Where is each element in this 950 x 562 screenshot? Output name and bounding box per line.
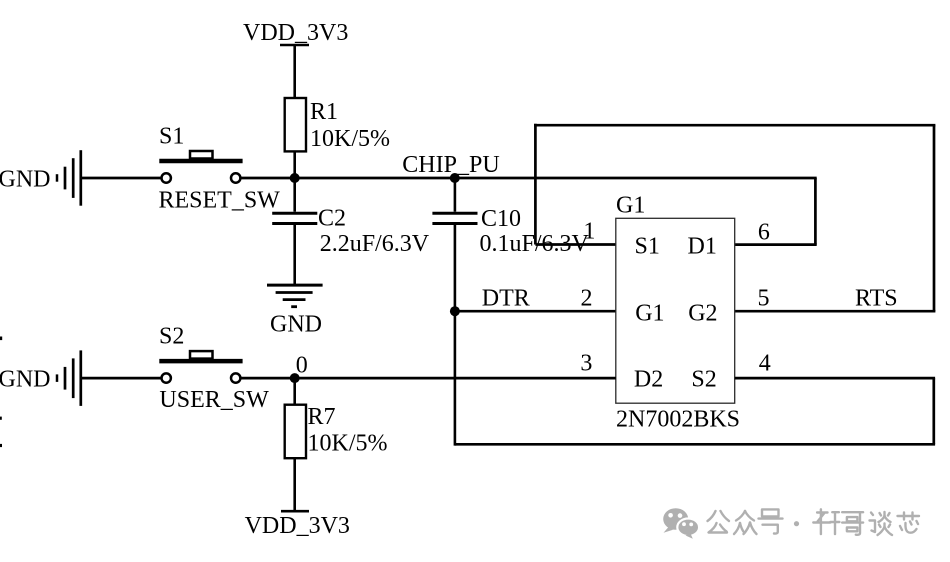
wire pin 4 loop (S2 net bottom) xyxy=(455,311,935,445)
svg-text:GND: GND xyxy=(270,312,322,338)
svg-text:VDD_3V3: VDD_3V3 xyxy=(245,513,350,539)
wire C10 to DTR junction xyxy=(454,225,457,311)
svg-text:RTS: RTS xyxy=(855,286,898,312)
wire R1 to junction xyxy=(293,151,296,178)
capacitor C2 xyxy=(272,178,430,257)
svg-text:2: 2 xyxy=(581,286,593,312)
svg-text:GND: GND xyxy=(0,166,51,192)
号 xyxy=(759,509,783,533)
svg-text:C2: C2 xyxy=(318,206,346,232)
watermark wechat icon xyxy=(663,508,699,539)
junction (R1/S1/C2) xyxy=(290,173,300,183)
svg-text:S2: S2 xyxy=(691,367,716,393)
ground GND (user row, left) xyxy=(0,350,81,406)
switch S2 (USER_SW) xyxy=(159,324,269,414)
svg-text:S1: S1 xyxy=(159,124,184,150)
svg-text:1: 1 xyxy=(583,219,595,245)
· xyxy=(794,521,799,526)
svg-text:C10: C10 xyxy=(481,206,521,232)
svg-text:R1: R1 xyxy=(310,99,338,125)
power symbol VDD_3V3 (bottom) xyxy=(245,511,350,539)
svg-text:10K/5%: 10K/5% xyxy=(310,126,390,152)
svg-text:VDD_3V3: VDD_3V3 xyxy=(243,20,348,46)
edge mark 1 xyxy=(0,337,2,341)
芯 xyxy=(898,513,920,533)
junction (DTR/C10) xyxy=(450,306,460,316)
ground GND (reset row, left) xyxy=(0,150,81,206)
svg-text:10K/5%: 10K/5% xyxy=(308,431,388,457)
junction (CHIP_PU/C10) xyxy=(450,173,460,183)
svg-text:GND: GND xyxy=(0,367,51,393)
wire S2 to pin 3 xyxy=(240,377,616,380)
switch S1 (RESET_SW) xyxy=(159,124,281,214)
capacitor C10 xyxy=(432,178,589,257)
wire VDD_3V3 to R1 xyxy=(293,45,296,99)
svg-text:6: 6 xyxy=(758,220,770,246)
transistor G1 2N7002BKS xyxy=(616,193,740,433)
众 xyxy=(734,511,757,534)
ground GND (below C2) xyxy=(267,285,323,337)
公 xyxy=(708,511,730,533)
svg-text:2N7002BKS: 2N7002BKS xyxy=(616,406,740,432)
wire DTR to pin 2 xyxy=(455,310,616,313)
svg-text:S2: S2 xyxy=(159,324,184,350)
edge mark 2 xyxy=(0,417,2,420)
wire junction to R7 xyxy=(293,378,296,405)
svg-text:5: 5 xyxy=(758,286,770,312)
wire S1 to pin 6 corner (CHIP_PU net) xyxy=(240,178,817,245)
svg-text:D1: D1 xyxy=(688,234,717,260)
轩 xyxy=(813,509,839,534)
wire R7 to VDD xyxy=(293,458,296,511)
svg-text:R7: R7 xyxy=(308,404,336,430)
resistor R1 xyxy=(285,98,390,152)
wire S1 net loop (pin 1 to RTS) xyxy=(534,124,935,311)
svg-text:S1: S1 xyxy=(635,234,660,260)
svg-text:G1: G1 xyxy=(616,193,645,219)
svg-text:DTR: DTR xyxy=(482,286,530,312)
watermark text 公众号·轩哥谈芯 (drawn glyphs) xyxy=(708,509,920,535)
哥 xyxy=(842,512,863,535)
svg-text:G2: G2 xyxy=(688,300,717,326)
junction (S2/R7) xyxy=(290,373,300,383)
edge mark 3 xyxy=(0,444,2,447)
svg-text:3: 3 xyxy=(580,351,592,377)
svg-text:D2: D2 xyxy=(634,367,663,393)
power symbol VDD_3V3 (top) xyxy=(243,20,348,46)
wire pin 1 xyxy=(535,243,615,246)
svg-text:USER_SW: USER_SW xyxy=(159,387,269,413)
谈 xyxy=(870,512,893,535)
svg-text:4: 4 xyxy=(759,351,771,377)
svg-text:2.2uF/6.3V: 2.2uF/6.3V xyxy=(320,231,430,257)
wire C2 to GND xyxy=(293,225,296,285)
wire GND to S1 pin xyxy=(81,177,162,180)
wire GND to S2 pin xyxy=(81,377,162,380)
svg-text:G1: G1 xyxy=(635,300,664,326)
svg-text:CHIP_PU: CHIP_PU xyxy=(402,152,499,178)
resistor R7 xyxy=(285,404,388,458)
svg-text:RESET_SW: RESET_SW xyxy=(159,188,281,214)
